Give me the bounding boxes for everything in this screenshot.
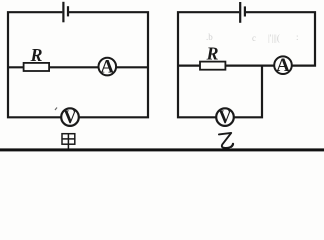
battery cell B2 short plate (244, 6, 246, 16)
svg-text:|'|||(: |'|||( (268, 33, 280, 43)
svg-text::: : (296, 32, 299, 42)
ammeter A2 (right circuit) (274, 55, 292, 76)
stray scan tick (55, 108, 57, 111)
ammeter A1 (left circuit) (99, 56, 117, 77)
label 甲 (hand-drawn glyph) (62, 134, 75, 150)
wire: left-circuit top-right + right vertical + bottom-right run (69, 12, 148, 117)
svg-text:V: V (63, 108, 77, 128)
resistor R (right circuit) (200, 62, 225, 70)
svg-text:V: V (218, 108, 232, 128)
battery cell B1 short plate (67, 6, 69, 16)
wire: middle branch left segment to ammeter (178, 64, 274, 66)
wire: middle branch left segment to ammeter (8, 66, 98, 68)
svg-text:A: A (100, 56, 114, 77)
battery cell B1 long plate (62, 2, 64, 23)
page separator rule (0, 148, 324, 151)
wire: right-circuit top-right + right vertical down to middle row (246, 12, 315, 65)
ghost bleed-through text (206, 32, 299, 43)
svg-text:R: R (205, 44, 218, 64)
battery cell B2 long plate (239, 2, 241, 23)
resistor R (left circuit) (24, 63, 49, 71)
wire: left-circuit top-left + left vertical + bottom-left run (8, 12, 62, 117)
voltmeter V1 (left circuit) (61, 108, 79, 128)
wire: middle branch right segment from ammeter (117, 66, 149, 68)
svg-text:.b: .b (206, 32, 213, 42)
svg-text:c: c (252, 33, 256, 43)
voltmeter V2 (right circuit) (216, 108, 234, 128)
label 乙 (hand-drawn glyph) (219, 133, 233, 148)
svg-text:R: R (29, 45, 42, 65)
wire: voltmeter branch drop + bottom run to voltmeter (234, 66, 262, 118)
wire: right-circuit top-left + left vertical + bottom-left run (178, 12, 239, 117)
svg-text:A: A (276, 55, 290, 76)
circuit 乙 (right) (178, 2, 315, 117)
circuit 甲 (left) (8, 2, 148, 118)
